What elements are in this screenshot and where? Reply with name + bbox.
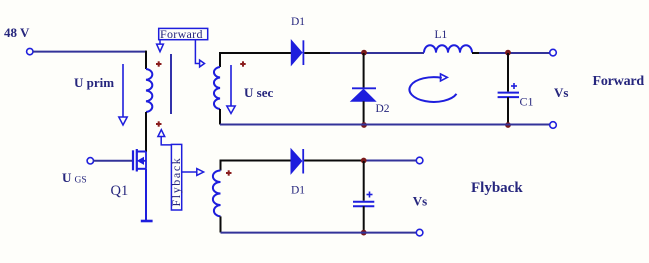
transistor Q1 MOSFET symbol: [133, 149, 146, 172]
wire gate: [94, 160, 133, 162]
arrow from Flyback box right toward flyback secondary: [182, 169, 204, 176]
junction node C (L1 / C1 / +Vs): [505, 50, 511, 56]
wire source to ground: [145, 169, 147, 221]
arrow U prim direction (down): [119, 64, 127, 125]
junction node B (D2 anode / bottom rail): [361, 122, 367, 128]
circulating current loop arrow: [409, 74, 456, 102]
arrow from Flyback box up to primary dot: [158, 130, 172, 145]
node gate terminal circle: [87, 158, 93, 164]
transformer T1 core line: [170, 54, 172, 114]
node -Vs terminal (forward): [550, 122, 557, 129]
svg-text:Forward: Forward: [160, 27, 203, 41]
wire flyback secondary top lead: [221, 161, 292, 171]
polarity mark + primary bottom: [156, 121, 162, 126]
svg-text:L1: L1: [435, 29, 448, 41]
svg-text:GS: GS: [75, 176, 87, 186]
wire forward secondary bottom lead: [219, 109, 221, 125]
svg-text:Vs: Vs: [554, 85, 568, 100]
polarity mark + flyback secondary: [226, 170, 232, 175]
wire D1 cathode to node A: [304, 52, 330, 54]
diode D1 flyback rectifier: [291, 149, 303, 174]
wire forward bottom rail: [220, 124, 550, 126]
inductor L1: [424, 45, 472, 52]
arrow from Forward box down to primary dot: [157, 40, 164, 52]
junction node E (flyback cap top): [361, 158, 367, 164]
svg-text:Flyback: Flyback: [471, 180, 523, 196]
wire forward secondary top lead: [220, 53, 291, 67]
capacitor flyback output: [353, 202, 374, 207]
wire L1 left black stub: [472, 52, 479, 54]
svg-text:D1: D1: [291, 185, 305, 197]
wire flyback cap upper lead: [363, 161, 365, 201]
capacitor C1: [498, 93, 519, 98]
ground: [141, 220, 153, 223]
diode D1 forward rectifier: [291, 40, 303, 65]
callout box Flyback (rotated): [169, 144, 183, 210]
wire primary bottom to drain: [145, 112, 147, 152]
node +Vs terminal (forward): [550, 49, 557, 56]
arrow U sec direction (down): [227, 65, 235, 114]
svg-text:C1: C1: [520, 95, 534, 109]
wire flyback bottom rail: [221, 232, 417, 234]
junction node F (flyback cap bottom): [361, 230, 367, 236]
svg-text:Q1: Q1: [111, 183, 129, 199]
junction node D (C1 / bottom rail): [505, 122, 511, 128]
wire C1 lower lead: [507, 97, 509, 125]
wire 48V input to primary top: [33, 51, 146, 53]
wire flyback D1 cathode to node: [304, 160, 364, 162]
wire flyback secondary bottom lead: [220, 216, 222, 232]
svg-text:48 V: 48 V: [4, 25, 30, 40]
svg-text:U sec: U sec: [244, 85, 273, 100]
transformer T1 forward secondary winding: [214, 67, 220, 109]
wire D2 lower lead: [363, 101, 365, 124]
wire C1 upper lead: [507, 53, 509, 92]
svg-text:D2: D2: [376, 103, 390, 115]
wire flyback cap lower lead: [363, 206, 365, 232]
node -Vs terminal (flyback): [416, 229, 423, 236]
polarity mark + of flyback capacitor: [367, 192, 373, 198]
svg-text:U prim: U prim: [74, 75, 114, 90]
wire primary top lead: [145, 51, 147, 69]
wire flyback node to terminal: [364, 160, 417, 162]
wire node A segment: [330, 52, 424, 54]
callout box Forward: [159, 27, 208, 41]
svg-text:U: U: [62, 170, 72, 185]
transformer flyback secondary winding: [213, 171, 221, 217]
transformer T1 primary winding: [146, 69, 152, 112]
svg-text:Forward: Forward: [593, 74, 645, 89]
node Vin terminal (48 V input): [27, 48, 33, 54]
polarity mark + forward secondary: [240, 61, 246, 66]
svg-text:D1: D1: [291, 16, 305, 28]
wire D2 upper lead: [363, 53, 365, 88]
label U GS: [62, 170, 87, 186]
polarity mark + primary top: [156, 61, 162, 66]
svg-text:Flyback: Flyback: [169, 157, 183, 207]
junction node A (D1/D2/L1): [361, 50, 367, 56]
arrow from Forward box right toward secondary: [195, 40, 204, 67]
polarity mark + of C1: [511, 83, 517, 89]
wire L1 to output node: [479, 52, 550, 54]
svg-text:Vs: Vs: [413, 194, 427, 209]
node +Vs terminal (flyback): [416, 157, 423, 164]
diode D2 freewheeling: [351, 88, 376, 101]
